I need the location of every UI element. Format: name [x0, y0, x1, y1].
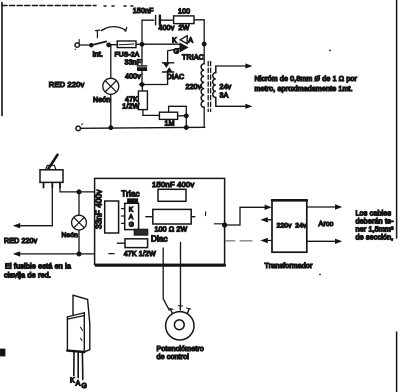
node (gate network junction, diamond) [139, 82, 144, 87]
snubber wire up [142, 20, 154, 42]
svg-text:ner 1,5mm²: ner 1,5mm² [356, 226, 395, 234]
gate wire [168, 48, 181, 63]
svg-text:33nF: 33nF [125, 59, 142, 66]
svg-text:100: 100 [178, 9, 190, 16]
neon lamp Neón [103, 78, 119, 94]
svg-text:TRIAC: TRIAC [182, 55, 204, 62]
svg-text:150nF 400v: 150nF 400v [152, 180, 194, 189]
svg-text:220v: 220v [277, 222, 293, 229]
triac TRIAC [180, 36, 187, 44]
neon lamp (pictorial) [72, 215, 87, 230]
svg-text:Transformador: Transformador [265, 263, 313, 270]
triac package pinout TO-220 (pictorial) [73, 295, 90, 324]
node (triac anode / transformer primary top) [202, 42, 206, 46]
arrow RED feed 2 [13, 251, 20, 256]
svg-text:A: A [188, 38, 193, 45]
wire [110, 44, 117, 46]
node (pot output) [185, 114, 189, 118]
svg-text:24v: 24v [295, 222, 307, 229]
svg-text:Triac: Triac [121, 190, 139, 199]
wire feed 1 from switch [16, 188, 52, 226]
potentiometer (pictorial) [166, 312, 194, 340]
svg-text:K: K [129, 207, 134, 214]
transformer core [208, 62, 210, 112]
stray dot [329, 50, 331, 52]
svg-text:Neón: Neón [93, 97, 110, 104]
junction (neon tap) [77, 190, 81, 194]
svg-text:A: A [76, 380, 81, 387]
wire from switch right leg to board [60, 188, 95, 192]
junction node (switch/neon) [107, 43, 111, 47]
svg-text:K: K [70, 378, 75, 385]
capacitor 150nF 400v [155, 16, 157, 25]
svg-text:G: G [129, 222, 134, 229]
svg-text:2W: 2W [179, 25, 190, 32]
toggle switch (pictorial) [49, 155, 58, 169]
wire feed 2 [16, 253, 95, 255]
page border top dashed (decorative) [2, 5, 96, 7]
node (fuse output / snubber tap) [140, 43, 144, 47]
arrow stub (transformer input 2) [263, 219, 272, 221]
terminal (phase input, top left) [75, 43, 79, 47]
circuit board [95, 178, 225, 264]
svg-text:de sección,: de sección, [356, 234, 394, 242]
fuse FUS-2A [117, 41, 136, 48]
faint wire [226, 240, 252, 242]
svg-text:400v: 400v [125, 73, 141, 80]
svg-text:47K 1/2W: 47K 1/2W [124, 251, 156, 258]
arrow RED feed 1 [13, 223, 20, 228]
svg-text:150nF: 150nF [133, 8, 154, 15]
wire output to arc (bottom) [307, 240, 337, 242]
resistor 47K 1/2W [141, 87, 143, 91]
arrow stub (transformer input 3) [263, 240, 272, 242]
svg-text:100 Ω 2W: 100 Ω 2W [155, 227, 188, 234]
svg-text:47K: 47K [125, 96, 138, 103]
diac (board) [134, 229, 148, 235]
svg-text:Potenciómetro: Potenciómetro [157, 346, 204, 353]
wire [145, 72, 168, 84]
wire [80, 44, 90, 46]
wire [78, 230, 80, 253]
svg-text:1M: 1M [165, 120, 175, 127]
wire secondary bottom output with arrow [216, 105, 247, 107]
print mark [0, 349, 5, 357]
svg-text:clavija de red.: clavija de red. [4, 271, 51, 280]
potentiometer 1M [159, 112, 177, 119]
svg-text:Nicróm de 0,8mm Ø de 1 Ω por: Nicróm de 0,8mm Ø de 1 Ω por [255, 76, 358, 83]
transformer T1 secondary 24v 3A [213, 66, 216, 106]
wire to potentiometer (right) [180, 242, 182, 307]
wire [161, 19, 173, 21]
svg-text:FUS-2A: FUS-2A [115, 52, 140, 59]
svg-text:RED 220v: RED 220v [4, 238, 38, 245]
svg-text:Diac: Diac [151, 234, 168, 243]
node (bottom rail junction) [185, 126, 189, 130]
neon branch wire [110, 46, 112, 79]
svg-text:33nF 400v: 33nF 400v [95, 190, 104, 229]
svg-text:Los cables: Los cables [356, 210, 392, 218]
resistor 100Ω 2W (board) [146, 216, 153, 218]
svg-text:El fusible está en la: El fusible está en la [5, 262, 71, 271]
diac DIAC [162, 62, 173, 64]
wire [78, 192, 80, 215]
wire [185, 118, 187, 126]
wire [136, 43, 140, 45]
svg-text:RED 220v: RED 220v [49, 80, 85, 89]
wire output to arc (top) [307, 206, 337, 208]
svg-text:DIAC: DIAC [167, 74, 184, 81]
wire [110, 94, 112, 127]
junction on feed 2 [77, 252, 81, 256]
transformer T1 primary 220v [201, 64, 204, 108]
switch Int. [90, 44, 93, 47]
svg-text:G: G [81, 383, 87, 390]
svg-text:A: A [129, 214, 134, 221]
junction (board output) [223, 223, 227, 227]
bottom rail wire [81, 127, 205, 128]
terminal (neutral, bottom left) [76, 126, 81, 131]
svg-text:metro, aproximadamente 1mt.: metro, aproximadamente 1mt. [255, 86, 353, 93]
svg-text:de control: de control [157, 354, 190, 361]
svg-text:Neón: Neón [62, 232, 79, 239]
capacitor 33nF 400v [141, 44, 143, 65]
wire to potentiometer (left) [163, 248, 169, 310]
svg-text:deberán te-: deberán te- [356, 218, 395, 226]
wire [144, 43, 180, 45]
svg-text:Int.: Int. [93, 52, 103, 59]
wire [203, 107, 205, 127]
svg-text:220v: 220v [186, 84, 202, 91]
transformer (pictorial) [272, 200, 307, 252]
wire (primary feed down) [203, 46, 205, 64]
small stubs on right of board [206, 212, 223, 224]
svg-text:3A: 3A [220, 93, 229, 100]
svg-text:1/2W: 1/2W [122, 103, 139, 110]
svg-text:Arco: Arco [319, 221, 334, 228]
resistor 100 2W [174, 16, 194, 24]
svg-text:K: K [172, 38, 177, 45]
wire board to transformer [225, 207, 266, 225]
capacitor 33nF 400v (board) [105, 201, 119, 233]
svg-text:400v: 400v [159, 25, 175, 32]
wire [194, 20, 204, 42]
wire secondary top output with arrow [216, 65, 247, 67]
junction on bottom rail [109, 126, 113, 130]
svg-text:24v: 24v [220, 84, 232, 91]
resistor 47K 1/2W (board) [117, 242, 125, 244]
